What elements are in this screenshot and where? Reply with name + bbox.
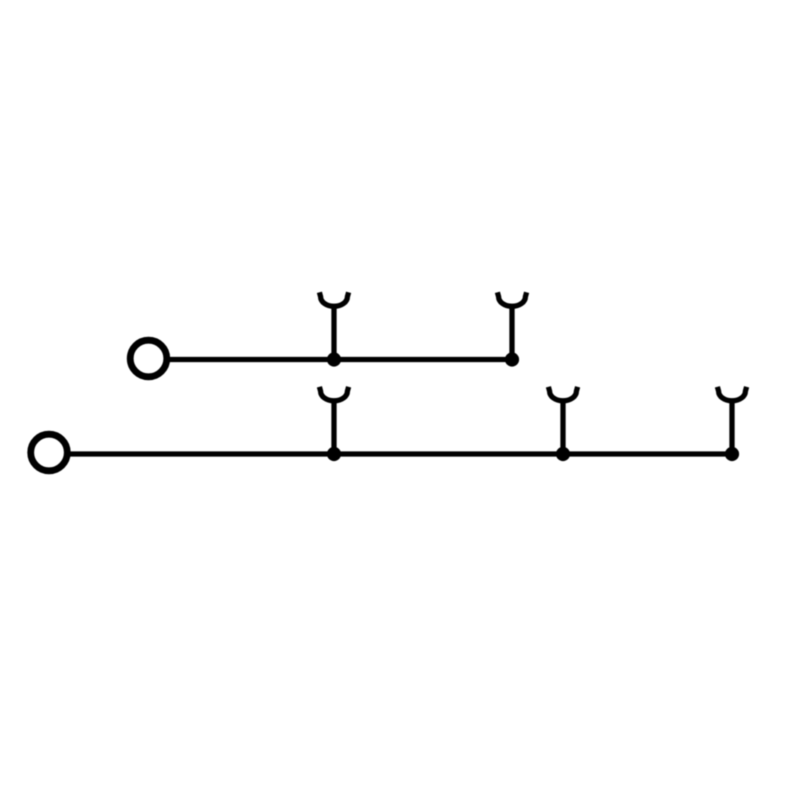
junction dot at end of upper bus [505, 352, 519, 366]
junction dot on upper bus at F1 [327, 352, 341, 366]
plug contact fork F3 on lower bus [319, 387, 348, 454]
junction dot on lower bus at F3 [327, 447, 341, 461]
wire: upper level bus [166, 357, 512, 362]
plug contact fork F2 at end of upper bus [497, 292, 526, 359]
plug contact fork F4 on lower bus [548, 387, 577, 454]
junction dot on lower bus at F4 [556, 447, 570, 461]
terminal circle: lower level entry point [31, 434, 68, 471]
plug contact fork F5 at end of lower bus [717, 387, 746, 454]
wire: lower level bus [67, 451, 732, 456]
terminal circle: upper level entry point [130, 340, 167, 377]
plug contact fork F1 on upper bus [319, 292, 348, 359]
junction dot at end of lower bus [725, 447, 739, 461]
